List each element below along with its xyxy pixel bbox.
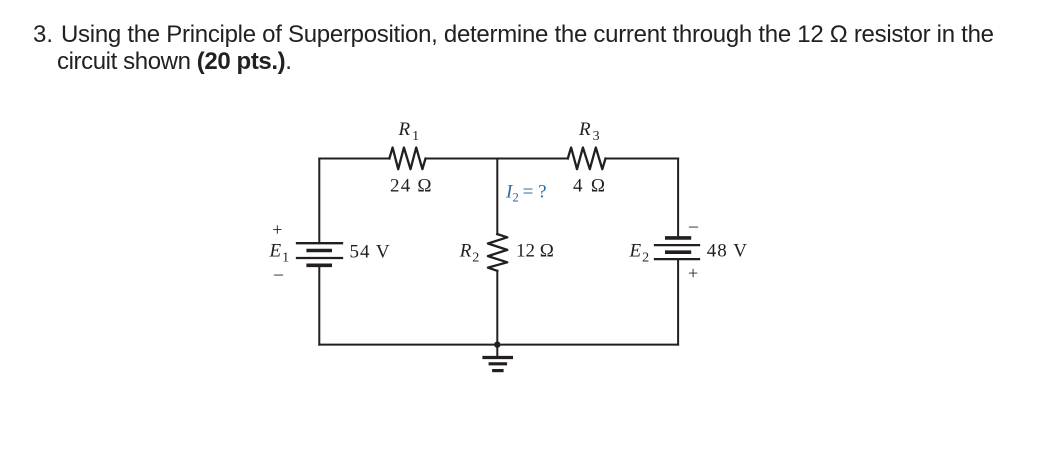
svg-text:R1: R1 <box>398 119 420 144</box>
wire top-right horizontal <box>606 158 679 160</box>
wire middle vertical lower <box>496 271 498 345</box>
resistor R3 <box>568 148 606 170</box>
wire top-left horizontal <box>319 158 389 160</box>
problem statement line 1 <box>33 21 53 49</box>
problem statement line 2 <box>57 48 292 76</box>
wire left vertical upper <box>318 159 320 244</box>
wire bottom horizontal <box>319 344 678 346</box>
svg-text:E2: E2 <box>629 241 650 266</box>
svg-text:E1: E1 <box>269 241 290 266</box>
svg-text:+: + <box>272 220 282 240</box>
svg-text:24 Ω: 24 Ω <box>390 176 433 197</box>
svg-text:–: – <box>688 216 699 236</box>
wire middle vertical upper <box>496 159 498 235</box>
svg-text:R3: R3 <box>578 119 600 144</box>
battery E2 <box>655 238 699 259</box>
svg-text:+: + <box>688 263 698 283</box>
battery E1 <box>297 243 342 265</box>
svg-text:–: – <box>273 264 284 284</box>
svg-text:48 V: 48 V <box>707 241 748 262</box>
svg-text:12 Ω: 12 Ω <box>516 241 554 262</box>
wire right vertical lower <box>677 259 679 345</box>
wire top-middle horizontal <box>426 158 568 160</box>
svg-text:I2 = ?: I2 = ? <box>505 182 547 205</box>
svg-text:R2: R2 <box>459 241 480 266</box>
resistor R1 <box>389 148 425 170</box>
node junction dot <box>494 341 500 347</box>
resistor R2 <box>488 234 507 271</box>
svg-text:54 V: 54 V <box>350 242 391 263</box>
svg-text:4 Ω: 4 Ω <box>573 176 607 197</box>
wire left vertical lower <box>318 265 320 344</box>
wire right vertical upper <box>677 159 679 238</box>
ground <box>484 345 511 371</box>
